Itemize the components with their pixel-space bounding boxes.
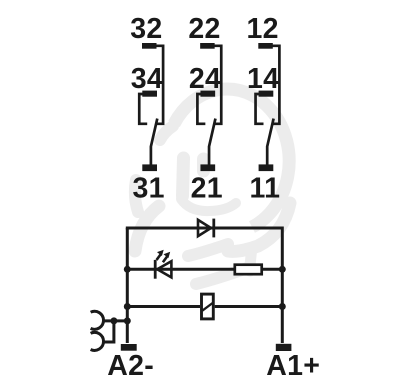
contact arm group1: [151, 119, 157, 166]
svg-text:A1+: A1+: [266, 350, 320, 382]
terminal 12: [258, 43, 273, 49]
right bus: [281, 227, 284, 344]
wire LED row left: [127, 268, 233, 271]
wire 14 NO branch: [256, 94, 264, 124]
contact group 1: [139, 46, 163, 166]
diode V1 cathode bar: [212, 219, 215, 238]
junction dot left row2: [124, 266, 131, 273]
socket arc top: [91, 311, 104, 329]
watermark lower tail: [250, 249, 252, 271]
terminal 32: [142, 43, 157, 49]
terminal A1: [276, 344, 292, 351]
watermark ring: [135, 89, 290, 284]
wire 24 NO branch: [197, 94, 205, 124]
wire coil row right: [215, 305, 283, 308]
LED triangle: [157, 261, 171, 277]
junction dot right row2: [279, 266, 286, 273]
socket wire bottom: [103, 321, 114, 342]
terminal 31: [142, 164, 157, 171]
junction dot left row3: [124, 303, 131, 310]
wire LED row right: [263, 268, 282, 271]
svg-text:14: 14: [247, 63, 279, 95]
wire coil row left: [127, 305, 200, 308]
watermark band lower: [196, 267, 250, 284]
terminal A2: [121, 344, 137, 351]
socket arc bottom: [91, 332, 104, 350]
svg-text:12: 12: [246, 13, 278, 45]
resistor R1: [235, 265, 262, 275]
watermark band mid-left: [188, 244, 228, 256]
bottom circuit: [126, 227, 282, 344]
contact group 2: [197, 46, 221, 166]
left bus: [126, 228, 129, 343]
svg-text:21: 21: [191, 172, 223, 204]
wire 32 NC branch: [155, 46, 163, 124]
diode V1: [198, 220, 211, 236]
socket wire top: [103, 319, 128, 322]
watermark ring upper-left tip: [160, 126, 173, 140]
wire 34 NO branch: [139, 94, 147, 124]
LED arrow 2: [163, 252, 170, 262]
relay coil K1: [202, 294, 214, 319]
LED cathode bar: [154, 260, 157, 279]
terminal 22: [200, 43, 215, 49]
watermark bar right: [197, 159, 210, 171]
contact arm group2: [209, 119, 215, 166]
relay coil diagonal: [202, 303, 212, 311]
svg-text:34: 34: [131, 63, 163, 95]
svg-text:31: 31: [132, 172, 164, 204]
watermark swoosh lower-right: [228, 203, 290, 251]
contact arm group3: [267, 119, 273, 166]
watermark bar left: [183, 158, 184, 196]
watermark swoosh lower-left: [135, 206, 159, 251]
watermark smile: [181, 199, 236, 211]
svg-text:32: 32: [130, 13, 162, 45]
terminal 24: [200, 91, 215, 97]
wire 12 NC branch: [271, 46, 279, 124]
contact group 3: [256, 46, 280, 166]
junction dot right row3: [279, 303, 286, 310]
junction dot socket tee: [110, 317, 117, 324]
terminal 21: [200, 164, 215, 171]
top wire with freewheeling diode: [126, 227, 282, 230]
junction dot left socket line: [124, 317, 131, 324]
wire 22 NC branch: [213, 46, 221, 124]
terminal 11: [259, 164, 274, 171]
svg-text:A2-: A2-: [107, 350, 154, 382]
svg-text:11: 11: [250, 172, 281, 204]
watermark swoosh upper tail: [135, 180, 138, 212]
svg-text:22: 22: [188, 13, 220, 45]
terminal 34: [142, 91, 157, 97]
LED arrow 1: [157, 250, 164, 260]
svg-text:24: 24: [189, 63, 221, 95]
terminal 14: [259, 91, 274, 97]
